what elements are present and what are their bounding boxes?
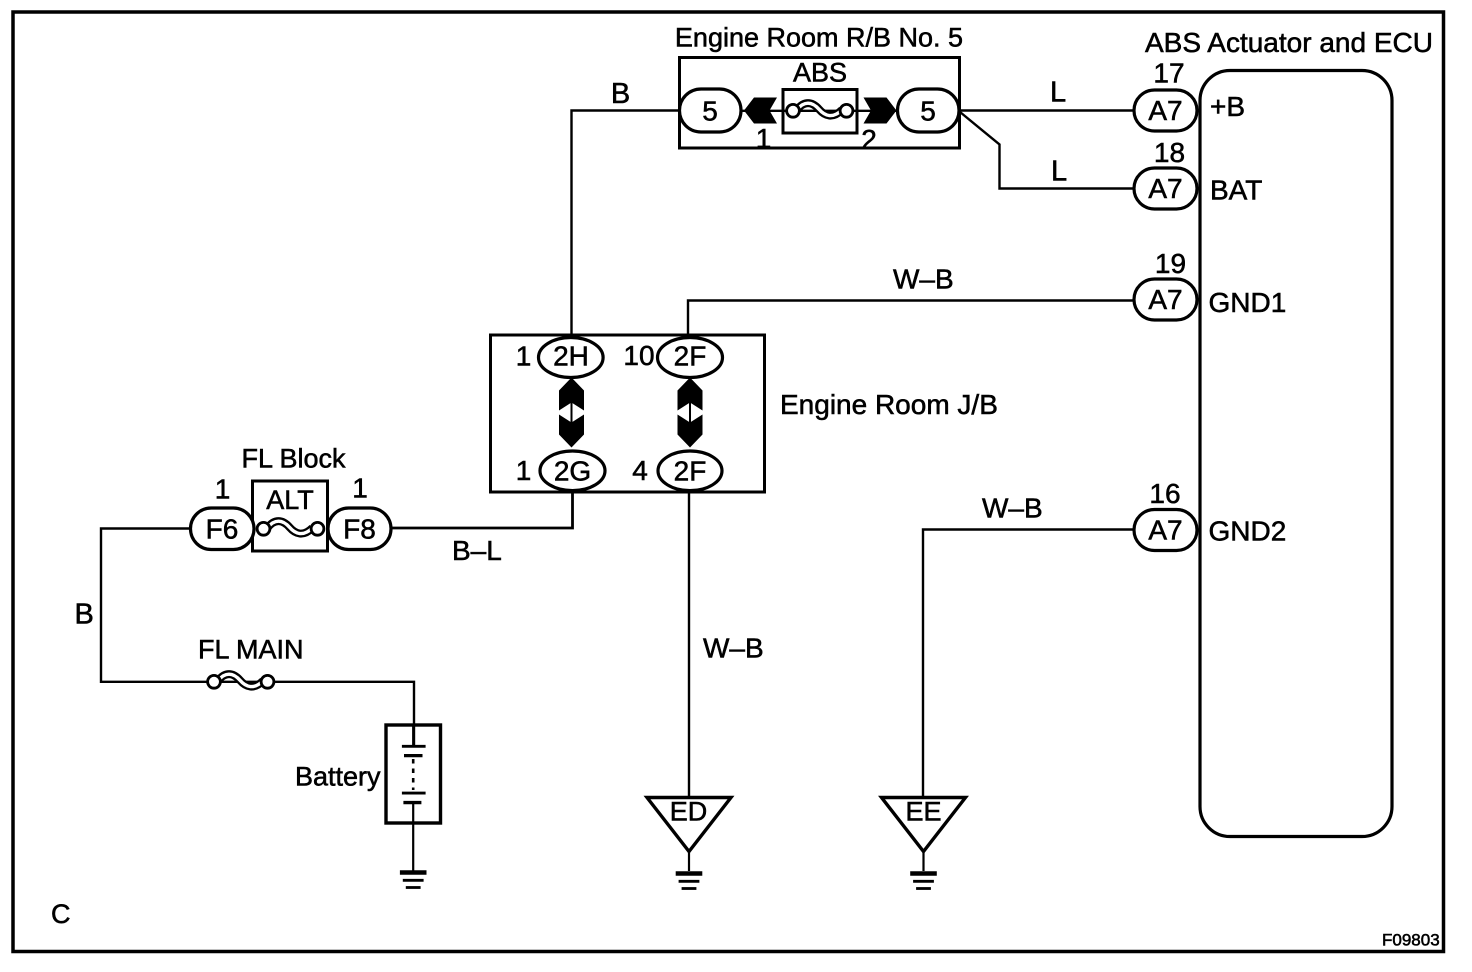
svg-text:C: C — [51, 899, 71, 929]
svg-text:F8: F8 — [343, 514, 376, 545]
svg-text:5: 5 — [702, 96, 718, 127]
svg-text:4: 4 — [632, 455, 648, 486]
svg-text:GND1: GND1 — [1209, 287, 1287, 318]
svg-text:2: 2 — [861, 124, 877, 155]
svg-text:1: 1 — [352, 473, 368, 504]
svg-text:F09803: F09803 — [1382, 931, 1440, 950]
svg-text:Battery: Battery — [295, 762, 381, 792]
svg-text:ED: ED — [670, 797, 708, 827]
svg-text:W–B: W–B — [893, 264, 954, 295]
svg-text:10: 10 — [623, 340, 654, 371]
svg-text:A7: A7 — [1148, 173, 1182, 204]
svg-text:ALT: ALT — [266, 485, 314, 515]
svg-text:L: L — [1051, 156, 1067, 188]
svg-text:F6: F6 — [206, 514, 239, 545]
svg-text:18: 18 — [1154, 137, 1185, 168]
svg-text:B: B — [611, 78, 630, 110]
svg-text:2G: 2G — [554, 456, 591, 487]
svg-text:17: 17 — [1153, 58, 1184, 89]
svg-text:16: 16 — [1149, 478, 1180, 509]
svg-text:EE: EE — [905, 797, 941, 827]
svg-text:1: 1 — [516, 341, 532, 372]
svg-text:+B: +B — [1210, 91, 1245, 122]
svg-text:2F: 2F — [674, 341, 707, 372]
svg-text:BAT: BAT — [1210, 175, 1262, 206]
svg-text:FL Block: FL Block — [242, 444, 347, 474]
svg-text:1: 1 — [215, 474, 231, 505]
svg-text:B–L: B–L — [452, 535, 502, 566]
svg-text:FL MAIN: FL MAIN — [198, 635, 304, 665]
svg-text:B: B — [75, 599, 94, 631]
svg-text:A7: A7 — [1148, 95, 1182, 126]
svg-text:2H: 2H — [553, 341, 589, 372]
svg-text:A7: A7 — [1148, 515, 1182, 546]
svg-text:1: 1 — [516, 455, 532, 486]
svg-text:2F: 2F — [674, 456, 707, 487]
svg-text:GND2: GND2 — [1209, 516, 1287, 547]
svg-text:W–B: W–B — [982, 493, 1043, 524]
svg-text:L: L — [1050, 77, 1066, 109]
svg-text:A7: A7 — [1148, 284, 1182, 315]
svg-text:1: 1 — [756, 123, 772, 154]
svg-text:Engine Room J/B: Engine Room J/B — [780, 389, 998, 420]
svg-text:19: 19 — [1155, 248, 1186, 279]
svg-text:ABS Actuator and ECU: ABS Actuator and ECU — [1145, 27, 1433, 58]
svg-text:Engine Room R/B No. 5: Engine Room R/B No. 5 — [675, 23, 963, 53]
svg-text:ABS: ABS — [793, 58, 847, 88]
svg-text:5: 5 — [920, 96, 936, 127]
svg-text:W–B: W–B — [703, 633, 764, 664]
